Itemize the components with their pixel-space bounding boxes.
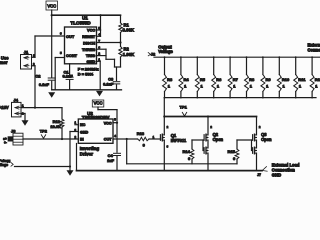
svg-text:GND: GND (80, 130, 89, 134)
svg-text:0.1uF: 0.1uF (103, 81, 114, 86)
svg-text:TRIG: TRIG (86, 53, 95, 58)
svg-text:R6: R6 (216, 77, 222, 82)
svg-text:VCC: VCC (87, 28, 95, 33)
svg-text:+18V: +18V (0, 105, 9, 110)
svg-text:OUT: OUT (104, 138, 113, 142)
svg-text:J1: J1 (24, 50, 29, 55)
svg-text:RESET: RESET (82, 34, 96, 39)
svg-text:C2: C2 (35, 74, 41, 79)
svg-text:R8: R8 (249, 77, 255, 82)
svg-text:10.0K: 10.0K (50, 124, 61, 129)
svg-text:TP2: TP2 (40, 129, 48, 134)
svg-text:Open: Open (261, 137, 272, 142)
svg-text:TP1: TP1 (180, 104, 188, 109)
svg-text:R15: R15 (227, 149, 235, 154)
svg-text:0.1uF: 0.1uF (63, 74, 74, 79)
svg-text:TPS2829DBV: TPS2829DBV (82, 115, 110, 120)
svg-text:VCC: VCC (47, 4, 56, 9)
svg-text:Voltage: Voltage (158, 49, 173, 54)
svg-text:CONT: CONT (66, 53, 78, 58)
svg-text:Driver: Driver (80, 151, 93, 156)
svg-text:8.06K: 8.06K (123, 28, 135, 33)
svg-text:R4: R4 (184, 77, 190, 82)
svg-text:Connection: Connection (308, 47, 320, 52)
svg-text:R10: R10 (282, 77, 290, 82)
svg-text:THRES: THRES (82, 47, 96, 52)
svg-text:R11: R11 (298, 77, 306, 82)
svg-text:VCC: VCC (94, 101, 103, 106)
svg-text:J7: J7 (257, 173, 261, 177)
svg-text:R14: R14 (182, 149, 190, 154)
svg-text:1.96K: 1.96K (123, 52, 135, 57)
svg-text:NC: NC (80, 123, 86, 127)
svg-text:R5: R5 (200, 77, 206, 82)
svg-text:Voltage: Voltage (0, 163, 8, 167)
svg-text:D = 50%: D = 50% (78, 72, 94, 77)
svg-text:DISCH: DISCH (83, 41, 95, 46)
svg-text:R7: R7 (233, 77, 239, 82)
svg-text:R3: R3 (167, 77, 173, 82)
svg-text:1uF: 1uF (107, 158, 115, 163)
svg-text:IRF7811: IRF7811 (171, 138, 187, 143)
svg-text:TLC555D: TLC555D (70, 20, 91, 25)
svg-text:OUT: OUT (66, 34, 75, 39)
svg-text:GND: GND (87, 59, 96, 64)
svg-text:IN: IN (80, 138, 84, 142)
svg-text:R9: R9 (266, 77, 272, 82)
svg-text:GND: GND (272, 173, 281, 178)
svg-text:mer: mer (0, 60, 8, 65)
svg-text:Open: Open (213, 137, 224, 142)
svg-text:e-: e- (4, 140, 7, 144)
svg-text:R12: R12 (315, 77, 320, 82)
svg-text:0.1uF: 0.1uF (39, 82, 50, 87)
svg-text:R13: R13 (137, 131, 145, 136)
svg-text:VCC: VCC (104, 121, 112, 125)
svg-text:R2: R2 (124, 46, 130, 51)
